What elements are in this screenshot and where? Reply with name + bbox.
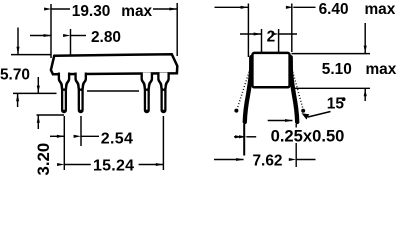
svg-text:6.40: 6.40 bbox=[319, 1, 349, 18]
svg-text:max: max bbox=[366, 61, 397, 78]
svg-text:max: max bbox=[365, 1, 396, 18]
svg-text:15.24: 15.24 bbox=[93, 158, 134, 175]
svg-text:5.70: 5.70 bbox=[0, 66, 30, 83]
svg-text:max: max bbox=[121, 3, 152, 20]
svg-text:0.25x0.50: 0.25x0.50 bbox=[271, 126, 345, 145]
svg-text:2: 2 bbox=[267, 29, 276, 46]
svg-text:2.54: 2.54 bbox=[101, 130, 133, 147]
svg-text:3.20: 3.20 bbox=[34, 143, 53, 176]
svg-text:5.10: 5.10 bbox=[322, 61, 352, 78]
svg-text:2.80: 2.80 bbox=[91, 29, 121, 46]
svg-text:7.62: 7.62 bbox=[253, 153, 283, 170]
svg-text:19.30: 19.30 bbox=[72, 3, 111, 20]
svg-text:15: 15 bbox=[327, 96, 345, 113]
